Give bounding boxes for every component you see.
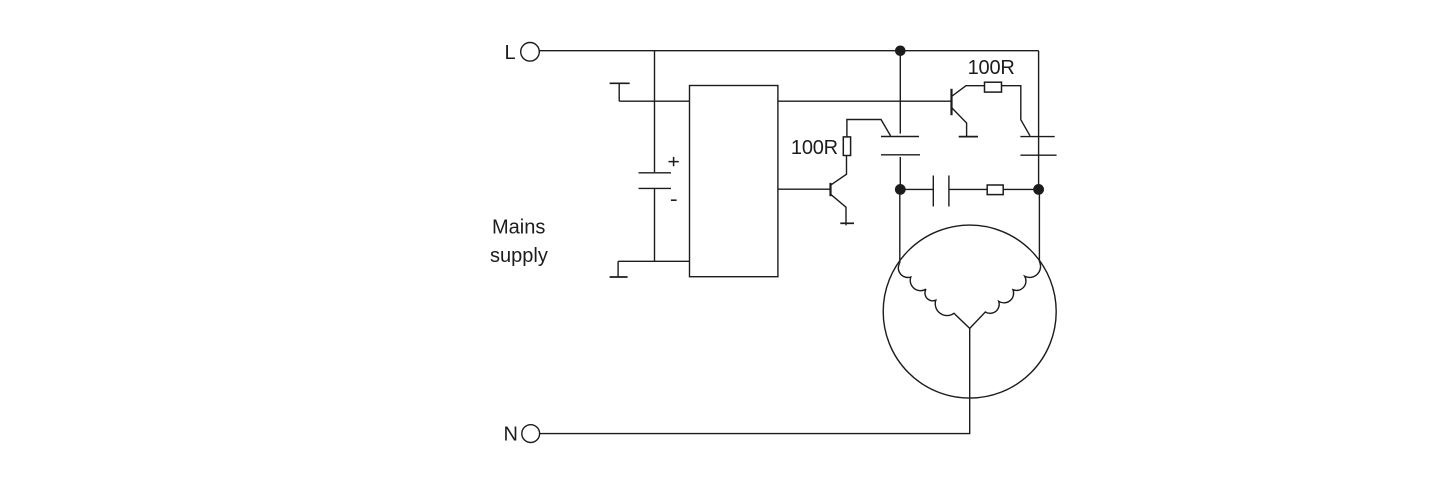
svg-text:N: N (504, 424, 518, 446)
motor M1 body (883, 225, 1056, 398)
wire top rail to C2 (899, 51, 901, 134)
capacitor C1 (polarized reservoir) (639, 157, 679, 200)
svg-text:100R: 100R (968, 57, 1015, 79)
terminal L (521, 43, 540, 62)
wire node B down to winding (899, 189, 901, 263)
wire R3 to node C (1003, 188, 1038, 190)
node B junction dot (895, 184, 906, 195)
capacitor C2 (881, 137, 920, 155)
wire U1 top-right pin to Q2 base (778, 100, 951, 102)
motor winding left (898, 263, 969, 328)
block U1 (690, 86, 778, 277)
svg-text:Mains: Mains (492, 216, 545, 238)
resistor R3 (987, 185, 1003, 195)
wire node B to C4 (900, 188, 933, 190)
wire tap to block U1 lower-left pin (618, 260, 689, 262)
node C junction dot (1033, 184, 1044, 195)
svg-text:100R: 100R (791, 137, 838, 159)
capacitor C4 (933, 176, 949, 207)
svg-text:L: L (505, 42, 516, 64)
node A junction dot (895, 46, 906, 57)
wire R2 to C3 top plate (gate lead) (1002, 86, 1031, 136)
terminal tap bottom-left (610, 261, 628, 277)
capacitor C3 (1020, 137, 1056, 156)
motor winding right (970, 262, 1041, 328)
terminal tap top-left (610, 83, 630, 101)
terminal N (522, 425, 540, 443)
wire top rail L to right corner (539, 50, 1038, 52)
wire right vertical drop (through C3) (1038, 51, 1040, 190)
wire R1 to C2 top plate (gate lead) (847, 120, 891, 137)
transistor Q2 (952, 86, 985, 137)
wire C2 bottom to node B (899, 157, 901, 189)
wire C4 to R3 (949, 188, 987, 190)
wire C1 bottom to lower rail (654, 188, 656, 261)
wire tap to block U1 upper-left pin (619, 100, 689, 102)
resistor R2 (985, 82, 1002, 92)
wire vertical to C1 top (654, 51, 656, 173)
svg-text:supply: supply (490, 245, 548, 267)
resistor R1 (843, 137, 850, 156)
transistor Q1 (831, 156, 855, 226)
wire node C down to winding (1038, 189, 1040, 262)
wire U1 mid-right pin to Q1 base (778, 188, 830, 190)
wire motor star point to N rail (540, 328, 970, 433)
